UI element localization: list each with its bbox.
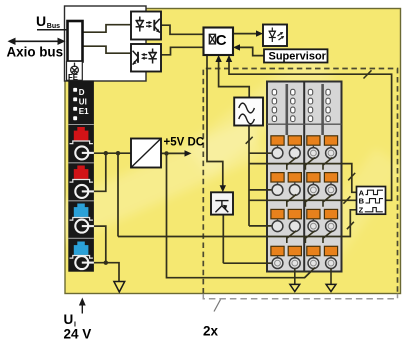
svg-text:C: C xyxy=(216,32,227,49)
svg-text:U: U xyxy=(64,312,74,327)
svg-text:24 V: 24 V xyxy=(64,327,92,342)
svg-text:Axio bus: Axio bus xyxy=(7,45,64,60)
svg-text:UI: UI xyxy=(79,97,87,106)
svg-text:D: D xyxy=(79,88,85,97)
svg-text:Supervisor: Supervisor xyxy=(269,50,327,62)
svg-text:FE: FE xyxy=(68,73,78,82)
svg-text:Z: Z xyxy=(359,206,364,215)
svg-text:Bus: Bus xyxy=(47,23,60,30)
svg-text:E1: E1 xyxy=(79,107,89,116)
svg-text:2x: 2x xyxy=(203,324,219,339)
svg-text:U: U xyxy=(36,13,46,29)
svg-text:B: B xyxy=(359,197,365,206)
svg-text:+5V DC: +5V DC xyxy=(164,137,205,149)
